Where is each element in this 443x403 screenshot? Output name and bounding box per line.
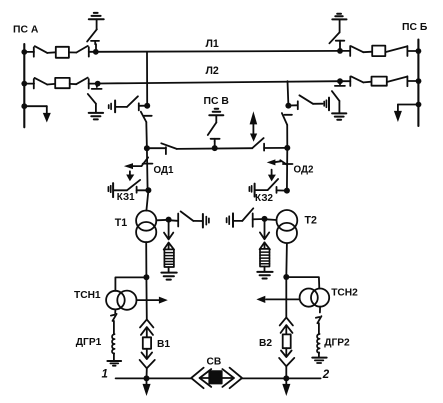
ground (sideways, left tap row): [109, 101, 115, 113]
wire to T2 neutral node: [253, 218, 265, 220]
ground (inverted, PS V): [209, 109, 223, 116]
double arrow (link automatic indicator): [250, 111, 258, 142]
label В1: [157, 339, 170, 350]
wire neutral node to T2: [265, 218, 277, 221]
disconnector T2 neutral blade: [242, 208, 253, 221]
disconnector QS6 contact tick: [406, 46, 408, 56]
bus B (right substation busbar): [417, 40, 419, 127]
wire KZ1 node to T1: [146, 190, 148, 210]
drawout breaker V1 upper chevrons: [140, 319, 153, 337]
disconnector QS4 contact tick: [88, 79, 90, 89]
node link right junction: [284, 145, 290, 151]
label Л2: [206, 65, 219, 77]
svg-text:ПС А: ПС А: [13, 25, 39, 36]
wire right dropper from L2: [287, 81, 290, 105]
sectionalizer OD2 blade: [280, 160, 287, 165]
disconnector right tap contact tick: [297, 101, 299, 109]
load arrow from bus B: [394, 105, 402, 123]
disconnector left tap contact tick: [138, 103, 140, 110]
disconnector QS8 blade: [387, 77, 407, 82]
disconnector link-left contact tick: [165, 147, 167, 154]
node L2 right junction: [337, 78, 343, 84]
disconnector QS3 contact tick: [33, 79, 35, 89]
disconnector right tap blade: [299, 95, 313, 104]
disconnector T2 neutral contact tick: [252, 213, 254, 226]
surge arrester F2 gap arrows: [260, 219, 270, 250]
disconnector T1 neutral contact tick: [177, 214, 179, 227]
grounding switch PS V contact bar: [211, 139, 220, 142]
svg-text:ДГР2: ДГР2: [324, 337, 350, 348]
node L1 right junction: [337, 48, 343, 54]
node link left junction: [144, 145, 150, 151]
node left dropper / tap row: [144, 103, 150, 109]
disconnector QS4 blade: [76, 78, 88, 85]
svg-text:2: 2: [322, 369, 330, 381]
ground (below QSG2): [89, 113, 103, 120]
DGR2 stem to ground: [318, 352, 320, 357]
transformer TSN1: [106, 291, 136, 310]
label ПС В: [204, 96, 230, 107]
wire right tap row: [288, 104, 297, 106]
section breaker SV left chevrons: [191, 368, 211, 389]
label ДГР2: [324, 337, 350, 348]
section breaker SV right chevrons: [222, 368, 242, 389]
breaker Q2 (line Л2 left): [55, 78, 69, 88]
sectionalizer OD2 trip arrow: [267, 159, 281, 165]
short-circuiter KZ1 close arrow: [126, 171, 134, 181]
svg-text:В1: В1: [157, 339, 170, 350]
node KZ1 junction: [145, 187, 151, 193]
surge arrester F1 tube: [164, 249, 174, 267]
wire from breaker Q1: [69, 51, 77, 53]
node KZ2 junction: [284, 188, 290, 194]
disconnector left tap blade: [127, 96, 138, 107]
disconnector QS5 blade: [351, 46, 363, 52]
node bus A / L1 junction: [21, 49, 27, 55]
wire branch to TSN1: [115, 277, 146, 290]
sectionalizer OD1 contact bar: [143, 163, 153, 165]
wire to breaker Q4: [363, 81, 371, 84]
wire node to breaker V2: [285, 277, 287, 317]
DGR1 stem to ground: [113, 353, 115, 361]
grounding switch QSG3 stem: [339, 44, 341, 51]
grounding switch QSG4 contact bar: [335, 85, 345, 87]
label 2: [322, 369, 330, 381]
node L2 left junction: [95, 81, 101, 87]
wire L2 left: bus A to disconnector: [24, 83, 34, 85]
DGR1 switch tick: [111, 314, 115, 317]
wire T1 to lower node: [145, 242, 147, 277]
wire V1 to bus 1: [146, 368, 148, 378]
wire line L2 main span: [98, 81, 340, 83]
wire L1 right: node to disconnector: [340, 50, 350, 52]
wire QS4 to node: [89, 83, 98, 85]
DGR2 switch tick: [316, 316, 320, 319]
svg-text:СВ: СВ: [207, 356, 222, 367]
load arrow from bus A: [43, 106, 51, 122]
wire V2 to bus 2: [285, 366, 287, 378]
wire left tap row from ground: [116, 106, 127, 108]
ground (sideways, T2 neutral): [227, 213, 233, 227]
ground (below QSG4): [332, 113, 346, 119]
disconnector right dropper blade: [282, 113, 287, 125]
short-circuiter KZ2 contact tick: [276, 187, 278, 193]
transformer T2: [277, 210, 298, 243]
bus section 2: [242, 377, 321, 379]
wire node to breaker V1: [145, 277, 147, 319]
svg-text:ОД1: ОД1: [154, 165, 174, 176]
disconnector QS8 contact tick: [406, 76, 408, 86]
wire L1 left: bus A to disconnector: [24, 51, 34, 53]
svg-text:ОД2: ОД2: [294, 165, 314, 176]
wire bus B load branch: [398, 104, 419, 106]
node T1 lower branch: [143, 274, 149, 280]
feeder arrow bus 1: [143, 378, 151, 396]
label ТСН1: [74, 290, 101, 301]
wire T1 to neutral node: [156, 219, 168, 222]
grounding switch QSG2 stem: [96, 84, 98, 87]
svg-text:Л2: Л2: [206, 65, 219, 77]
wire QS2 to node: [89, 51, 96, 53]
disconnector T1 neutral blade: [181, 211, 194, 221]
disconnector QS6 blade: [386, 47, 407, 53]
short-circuiter KZ1 contact tick: [136, 187, 138, 193]
drawout breaker V1 lower chevrons: [140, 349, 155, 369]
wire link line left: [147, 147, 166, 149]
node bus A load branch: [21, 103, 27, 109]
label ПС Б: [402, 22, 428, 33]
disconnector left dropper blade: [141, 112, 147, 122]
section breaker SV body: [209, 371, 221, 383]
wire line L1 main span: [96, 50, 340, 53]
short-circuiter KZ2 wire from ground: [255, 189, 267, 191]
label Т1: [115, 217, 127, 229]
svg-text:ДГР1: ДГР1: [76, 337, 102, 348]
sectionalizer OD1 trip arrow: [124, 163, 142, 169]
surge arrester F2 tube: [260, 249, 270, 267]
grounding switch QSG1 stem to ground: [96, 19, 98, 29]
disconnector QS7 blade: [351, 76, 363, 82]
wire to breaker Q2: [47, 83, 55, 86]
arc-suppression coil DGR1: [112, 334, 115, 353]
svg-text:КЗ1: КЗ1: [117, 192, 135, 203]
ground (DGR1): [107, 361, 121, 366]
breaker V1 body: [143, 337, 151, 349]
grounding switch PS V stem to ground: [215, 115, 217, 122]
node T2 neutral: [262, 216, 268, 222]
surge arrester F1 ground stem: [168, 267, 170, 272]
disconnector link-right blade: [252, 138, 263, 148]
wire L2 right: node to disconnector: [340, 80, 350, 82]
wire KZ1 to dropper: [137, 189, 149, 191]
wire to breaker Q3: [363, 51, 372, 54]
grounding switch QSG3 blade: [329, 33, 339, 44]
wire right dropper link to OD2: [286, 148, 288, 191]
grounding switch QSG4 stem: [339, 81, 341, 84]
label Т2: [305, 214, 317, 226]
ground (sideways, right tap row): [324, 98, 329, 111]
node T1 neutral: [166, 217, 172, 223]
ground (DGR2): [312, 358, 326, 363]
grounding switch QSG1 blade: [87, 29, 97, 41]
disconnector QS7 contact tick: [349, 77, 351, 87]
svg-text:Т2: Т2: [305, 214, 317, 226]
node L1 left junction: [93, 49, 99, 55]
node link center (PS V tap): [212, 145, 218, 151]
drawout breaker V2 lower chevrons: [279, 348, 294, 366]
short-circuiter KZ2 blade: [268, 179, 279, 190]
DGR2 stem from TSN2: [319, 307, 321, 313]
node bus B / L1 junction: [416, 48, 422, 54]
grounding switch QSG4 blade: [332, 91, 340, 101]
breaker V2 body: [283, 334, 291, 348]
svg-text:ТСН1: ТСН1: [74, 290, 101, 301]
wire link line right: [264, 147, 287, 149]
short-circuiter KZ2 close arrow: [268, 170, 276, 182]
node bus A / L2 junction: [21, 81, 27, 87]
wire QS8 to bus B: [407, 80, 418, 82]
ground (arrester F1): [161, 273, 176, 280]
wire T1 neutral to ground: [193, 220, 202, 222]
transformer TSN2: [300, 289, 330, 307]
label СВ: [207, 356, 222, 367]
grounding switch QSG1 stem: [95, 44, 97, 52]
drawout breaker V2 upper chevrons: [280, 317, 293, 334]
disconnector link-left blade: [161, 143, 176, 149]
sectionalizer OD1 blade: [142, 157, 149, 166]
ground (sideways, KZ1): [108, 183, 113, 197]
ground (sideways, KZ2): [249, 184, 254, 197]
disconnector QS2 contact tick: [88, 47, 90, 56]
feeder arrow bus 2: [282, 378, 290, 396]
disconnector QS2 blade: [76, 46, 87, 53]
grounding switch QSG3 contact bar: [336, 41, 345, 44]
label ДГР1: [76, 337, 102, 348]
bus section 1: [116, 377, 191, 379]
wire T2 neutral ground side: [234, 220, 243, 222]
breaker Q3 (line Л1 right): [372, 46, 385, 57]
wire left tap to dropper node: [139, 105, 147, 107]
disconnector link-right contact tick: [263, 144, 265, 151]
grounding switch QSG1 contact bar: [91, 41, 99, 44]
node bus B load branch: [416, 102, 422, 108]
wire bus A load branch: [24, 105, 47, 107]
label Л1: [206, 38, 219, 50]
grounding switch QSG4 stem to ground: [338, 101, 340, 113]
DGR1 stem from TSN1: [114, 309, 116, 313]
svg-text:Л1: Л1: [206, 38, 219, 50]
grounding switch PS V blade: [208, 123, 217, 136]
svg-text:В2: В2: [259, 338, 272, 349]
grounding switch QSG3 stem to ground: [339, 20, 341, 33]
label 1: [102, 369, 108, 381]
ground (inverted, above QSG1): [89, 13, 104, 19]
wire to breaker Q1: [47, 51, 56, 54]
svg-text:ПС В: ПС В: [204, 96, 230, 107]
arc-suppression coil DGR2: [317, 334, 320, 353]
grounding switch PS V stem: [214, 141, 216, 148]
grounding switch QSG2 contact bar: [92, 88, 102, 90]
label ТСН2: [331, 288, 358, 299]
svg-text:Т1: Т1: [115, 217, 127, 229]
breaker Q1 (line Л1 left): [56, 47, 69, 58]
label КЗ2: [255, 193, 273, 204]
label ПС А: [13, 25, 39, 36]
TSN2 output arrow: [256, 296, 299, 303]
label ОД2: [294, 165, 314, 176]
svg-text:ТСН2: ТСН2: [331, 288, 358, 299]
DGR1 switch blade: [113, 314, 117, 321]
breaker Q4 (line Л2 right): [372, 77, 387, 86]
disconnector left dropper contact bar: [144, 115, 152, 117]
grounding switch QSG2 stem to ground: [95, 104, 97, 113]
wire left dropper link to OD1: [146, 148, 149, 190]
transformer T1: [136, 211, 156, 243]
surge arrester F2 ground stem: [264, 267, 266, 272]
node T2 lower branch: [283, 274, 289, 280]
bus A (left substation busbar): [23, 44, 25, 127]
node bus 1 feeder: [144, 375, 150, 381]
wire T2 to lower node: [285, 243, 288, 277]
short-circuiter KZ1 wire from ground: [114, 189, 127, 191]
label ОД1: [154, 165, 174, 176]
wire neutral to disconnector: [169, 219, 178, 222]
DGR2 switch blade: [317, 316, 321, 323]
grounding switch QSG2 blade: [88, 94, 96, 104]
wire right tap to ground: [313, 103, 323, 105]
surge arrester F1 gap arrows: [164, 220, 174, 251]
wire left dropper from L1: [146, 52, 148, 106]
wire right dropper to link: [286, 125, 288, 148]
disconnector QS1 contact tick: [33, 47, 35, 56]
wire link line center: [177, 147, 253, 150]
node right dropper / tap row: [285, 103, 291, 109]
disconnector QS1 blade: [35, 46, 48, 53]
TSN1 output arrow: [137, 297, 168, 304]
disconnector right dropper contact bar: [284, 114, 292, 116]
DGR2 stem to coil: [318, 323, 320, 334]
label В2: [259, 338, 272, 349]
label КЗ1: [117, 192, 135, 203]
ground (sideways, T1 neutral): [203, 214, 209, 228]
wire KZ2 to dropper: [277, 189, 287, 191]
wire from breaker Q2: [70, 83, 77, 85]
sectionalizer OD2 contact bar: [283, 163, 293, 165]
ground (arrester F2): [257, 272, 272, 279]
wire branch to TSN2: [286, 277, 319, 289]
short-circuiter KZ1 blade: [127, 180, 140, 190]
node bus 2 feeder: [283, 375, 289, 381]
node bus B / L2 junction: [416, 78, 422, 84]
ground (inverted, above QSG3): [332, 14, 346, 20]
wire left dropper to link: [145, 122, 148, 148]
svg-text:КЗ2: КЗ2: [255, 193, 273, 204]
disconnector QS3 blade: [35, 78, 48, 85]
disconnector QS5 contact tick: [349, 46, 351, 56]
svg-text:ПС Б: ПС Б: [402, 22, 428, 33]
svg-text:1: 1: [102, 369, 108, 381]
wire QS6 to bus B: [407, 50, 418, 52]
DGR1 stem to coil: [113, 321, 115, 334]
